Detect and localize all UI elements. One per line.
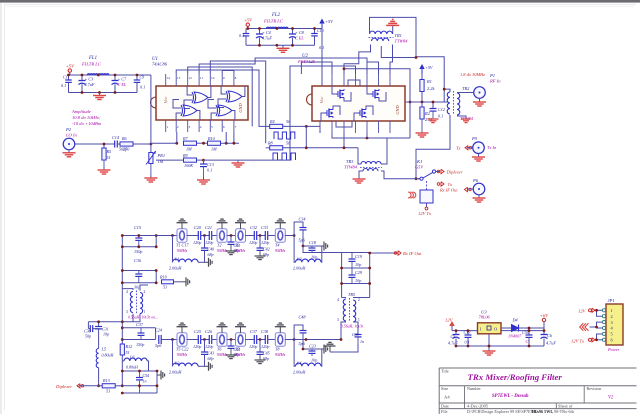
svg-text:C45: C45 [263, 351, 270, 356]
wire to R8 [266, 147, 270, 149]
ground R9 rail red [237, 160, 239, 163]
svg-text:File: File [441, 409, 448, 414]
svg-text:120p: 120p [205, 344, 213, 349]
svg-text:68p: 68p [208, 252, 214, 257]
junction [67, 74, 70, 77]
resistor R7 [184, 141, 197, 145]
svg-text:C42: C42 [263, 247, 270, 252]
svg-text:C18: C18 [309, 240, 317, 245]
ground under row B right [329, 346, 331, 352]
title block frame [439, 367, 636, 369]
svg-text:C39: C39 [352, 332, 359, 337]
svg-text:6: 6 [223, 125, 225, 129]
capacitor C40 shunt [204, 236, 206, 248]
ground above T1 [181, 223, 183, 229]
wire U2 bus 138 [332, 133, 410, 138]
ground FL2 [282, 45, 284, 48]
wire relay no contact [436, 171, 440, 173]
svg-text:C1: C1 [63, 75, 68, 80]
JP1 pin circles [602, 309, 605, 312]
svg-text:C37: C37 [136, 322, 144, 327]
IC U3 78L06 [478, 323, 502, 334]
svg-text:Rx IF Out: Rx IF Out [439, 187, 458, 192]
wire input caps join [93, 328, 99, 330]
svg-text:D:\PCB\Design Explorer 99 SE\S: D:\PCB\Design Explorer 99 SE\SP7EWL\ [467, 409, 539, 414]
svg-text:4.7uF: 4.7uF [85, 82, 95, 87]
svg-text:5p6: 5p6 [299, 341, 306, 346]
tank row B: C23 cap [303, 348, 312, 350]
svg-text:1: 1 [611, 308, 613, 313]
wire Diplexer to R13 [79, 385, 102, 387]
svg-text:FL1: FL1 [88, 56, 97, 61]
net Rx IF Out [370, 252, 398, 254]
window top bar [0, 0, 640, 3]
power +5V input FL2 [246, 23, 249, 26]
svg-text:C26: C26 [205, 329, 213, 334]
svg-text:C38: C38 [261, 329, 269, 334]
svg-text:Tx: Tx [456, 146, 461, 151]
svg-text:4: 4 [200, 125, 202, 129]
svg-text:0.56uH; 10t/3t: 0.56uH; 10t/3t [341, 325, 364, 329]
svg-text:7: 7 [235, 125, 237, 129]
mosfet U2C [328, 109, 330, 118]
svg-text:C29: C29 [355, 270, 363, 275]
svg-text:+5V: +5V [244, 18, 253, 23]
resistor R1 [421, 74, 423, 80]
inductor L4 [296, 363, 322, 366]
svg-text:-10 do +10dBm: -10 do +10dBm [72, 121, 102, 126]
wire U3 out [501, 327, 512, 329]
svg-text:2.00uH: 2.00uH [169, 266, 182, 271]
wire R7 to R10 [197, 142, 208, 144]
svg-text:Vcc: Vcc [163, 97, 168, 104]
svg-text:P2: P2 [65, 127, 72, 132]
svg-text:0.1: 0.1 [140, 85, 145, 90]
wire R6 to node [133, 143, 151, 145]
svg-text:3: 3 [337, 318, 339, 322]
capacitor C33 series [264, 231, 266, 240]
svg-text:T3: T3 [235, 243, 239, 248]
svg-text:T1 C17: T1 C17 [176, 243, 189, 248]
svg-text:4.7uF: 4.7uF [546, 341, 556, 346]
svg-text:8: 8 [235, 76, 237, 80]
svg-text:FILTR LC: FILTR LC [81, 62, 102, 67]
svg-text:36p: 36p [134, 285, 140, 290]
svg-text:0.1: 0.1 [207, 168, 212, 173]
svg-text:C: C [526, 339, 529, 344]
capacitor C43 shunt [204, 340, 206, 352]
ground above T6 [221, 327, 223, 333]
svg-text:R6: R6 [121, 136, 128, 141]
svg-text:+ C3: + C3 [85, 77, 94, 82]
potentiometer PR1 [150, 144, 152, 152]
svg-text:150p: 150p [136, 342, 144, 347]
svg-text:C36: C36 [134, 258, 142, 263]
wire L5 down [98, 368, 100, 386]
xor gate U1B [228, 91, 242, 102]
wire L3 left leg [172, 340, 174, 367]
svg-text:C21: C21 [205, 225, 212, 230]
svg-text:5: 5 [211, 125, 213, 129]
svg-text:13: 13 [177, 76, 181, 80]
svg-text:C12: C12 [438, 107, 445, 112]
wire C40 down [204, 250, 206, 262]
svg-text:1: 1 [166, 125, 168, 129]
wire TR4 bottom pins [122, 314, 133, 322]
wire T5 to C25 [187, 339, 199, 341]
svg-text:0.1: 0.1 [465, 340, 470, 345]
svg-text:4.7uF: 4.7uF [262, 36, 272, 41]
svg-text:0.80uH: 0.80uH [102, 353, 115, 358]
ground above T8 [279, 327, 281, 333]
wire node right [151, 142, 177, 144]
resistor R12 [120, 344, 124, 355]
ground R19 right [182, 281, 186, 283]
wire FL2 top rail [248, 26, 318, 28]
wire T4 right [285, 235, 294, 237]
svg-text:Power: Power [607, 347, 620, 352]
svg-text:0.1: 0.1 [239, 33, 244, 38]
port P6 [473, 183, 485, 195]
wire L6 legs [122, 360, 124, 362]
svg-text:11: 11 [200, 76, 204, 80]
svg-text:10p: 10p [355, 278, 361, 283]
ground C41 [226, 250, 237, 252]
wire FL1 top rail [70, 72, 151, 75]
capacitor C42 shunt [259, 236, 261, 248]
wire output box top [342, 252, 370, 254]
wire U1 pin10 run [210, 61, 265, 143]
wire output box left [341, 253, 343, 298]
svg-text:10.8 do 10kHz;: 10.8 do 10kHz; [72, 115, 101, 120]
ground C13 red [203, 167, 205, 177]
svg-text:+5V: +5V [66, 64, 75, 69]
svg-text:1: 1 [144, 310, 146, 314]
wire C33 to T4 [268, 235, 276, 237]
junction [121, 269, 124, 272]
capacitor C14 series [114, 141, 116, 148]
resistor R9 [184, 158, 197, 162]
ground C12 red [432, 111, 434, 119]
svg-text:1n: 1n [143, 379, 147, 384]
wire U2 internal loop top [348, 80, 360, 86]
svg-text:68p: 68p [208, 356, 214, 361]
wire U2 pin3 down to row [343, 133, 345, 148]
inductor FL2 coil B [277, 27, 288, 28]
svg-text:Tx In: Tx In [487, 145, 497, 150]
transformer TR2 [447, 92, 450, 114]
wire R8 right [283, 147, 358, 149]
wire input top link [88, 321, 122, 323]
svg-text:R12: R12 [125, 344, 133, 349]
svg-text:9MHz: 9MHz [177, 352, 188, 357]
waveform symbol 1 [274, 132, 295, 139]
capacitor C50 [526, 334, 533, 336]
wire U2 internal loop bottom [336, 121, 352, 127]
svg-text:Amplitude: Amplitude [71, 109, 91, 114]
resistor R8 [270, 146, 283, 150]
svg-text:L6: L6 [129, 355, 135, 360]
wire supply bottom rail [456, 345, 544, 347]
mosfet U2B [374, 90, 376, 99]
wire U1 pin11 top run [199, 58, 367, 74]
svg-text:Tx: Tx [448, 182, 453, 187]
resistor R5 [103, 144, 105, 148]
inductor FL1 coil B [98, 74, 109, 75]
svg-text:120p: 120p [249, 240, 257, 245]
svg-text:A4: A4 [444, 395, 450, 400]
junction [121, 234, 124, 237]
svg-text:R7: R7 [182, 136, 189, 141]
ground above T2 [221, 223, 223, 229]
wire supply rail [452, 330, 544, 332]
power +5V arrow U2 [321, 22, 323, 29]
svg-text:12V Tx: 12V Tx [571, 338, 584, 343]
svg-text:Date: Date [441, 404, 449, 409]
ground P5 red [478, 154, 480, 158]
svg-text:+5V: +5V [325, 19, 334, 24]
net GND JP1 chevrons [585, 323, 589, 331]
svg-text:120p: 120p [205, 240, 213, 245]
svg-text:D4: D4 [512, 318, 518, 323]
inductor FL1 coil A [87, 74, 98, 75]
capacitor C45 shunt [259, 340, 261, 352]
svg-text:R8: R8 [267, 141, 274, 146]
wire output box right [369, 253, 371, 298]
relay coil red arcs [408, 192, 411, 198]
crystal T3 [235, 235, 247, 237]
svg-text:G5V: G5V [415, 165, 424, 170]
svg-text:R13: R13 [102, 378, 110, 383]
svg-text:C40: C40 [208, 247, 215, 252]
wire row B to TR5 [294, 339, 341, 341]
svg-text:C34: C34 [299, 217, 306, 222]
wire TR1 secondary right [390, 45, 393, 75]
svg-text:K1: K1 [416, 159, 422, 164]
wire TR5 top pins [342, 297, 346, 299]
svg-text:2: 2 [177, 125, 179, 129]
svg-text:120p: 120p [249, 344, 257, 349]
wire TR1 secondary left [344, 45, 371, 75]
capacitor C13 [203, 160, 205, 164]
capacitor C24 series [158, 335, 160, 344]
svg-text:1n: 1n [360, 339, 364, 344]
net Tx arrow P5 [465, 146, 468, 150]
wire TR4 top right pin [140, 285, 148, 291]
svg-text:C25: C25 [194, 329, 201, 334]
capacitor C8 C EL [292, 29, 294, 34]
svg-text:51: 51 [106, 389, 110, 394]
ground above T3 [240, 223, 242, 229]
junction [455, 345, 458, 348]
transformer TR4 [130, 292, 133, 313]
ground P6 red [478, 195, 480, 198]
svg-text:V2: V2 [608, 396, 614, 401]
capacitor C38 series [264, 335, 266, 344]
capacitor C7 C EL [114, 75, 116, 80]
svg-text:2: 2 [358, 298, 360, 302]
capacitor C54 [139, 371, 141, 377]
inductor L3 [173, 363, 199, 366]
wire T8 right [285, 339, 294, 341]
svg-text:+ C8: + C8 [295, 30, 305, 35]
wire TR1 secondary center [381, 46, 416, 58]
crystal T7 [235, 339, 247, 341]
wire input box [87, 322, 89, 329]
power +6V circle [542, 318, 545, 321]
ground C42 [259, 250, 261, 256]
crystal T6 [216, 339, 228, 341]
wire TR2 bottom right to ground [457, 116, 466, 119]
wire output box mid [342, 267, 370, 269]
IC U1 74AC86 body [156, 86, 248, 120]
svg-text:3: 3 [126, 310, 128, 314]
ground C44 [226, 354, 237, 356]
wire R19 right [174, 281, 183, 283]
wire R13 row to box right [122, 385, 157, 387]
svg-text:R2: R2 [424, 111, 431, 116]
mosfet U2A [339, 90, 341, 99]
capacitor C6 [541, 334, 548, 336]
svg-text:+ C4: + C4 [262, 30, 271, 35]
wire U1 pin12 loop [188, 67, 253, 126]
wire JP1 pins 3 4 [590, 326, 597, 328]
wire R10 right [221, 142, 240, 144]
wire L1 left leg [172, 236, 174, 263]
wire L4 right leg [312, 349, 322, 366]
crystal T8 [274, 339, 286, 341]
svg-text:R5: R5 [106, 149, 112, 154]
svg-text:L5: L5 [101, 347, 106, 352]
svg-text:50p: 50p [85, 334, 91, 339]
svg-text:P5: P5 [471, 136, 478, 141]
ground PR1 red [150, 164, 152, 176]
ground FL1 [99, 93, 101, 96]
svg-text:12: 12 [188, 76, 192, 80]
svg-text:1M: 1M [211, 147, 217, 152]
wire R9 long right [204, 159, 291, 161]
svg-text:JP1: JP1 [608, 298, 615, 303]
wire TR5 pin1 down [353, 322, 358, 334]
ground C54 box right [157, 374, 161, 376]
wire U3 gnd [488, 334, 490, 348]
ground P2 red [68, 150, 70, 153]
svg-text:L1: L1 [174, 257, 179, 262]
wire to R4 [259, 95, 270, 126]
wire R1 to rail [421, 92, 423, 103]
svg-text:TTW84: TTW84 [344, 165, 358, 170]
capacitor C26 series [208, 335, 210, 344]
svg-text:C14: C14 [112, 135, 119, 140]
svg-text:Sheet of: Sheet of [558, 404, 573, 409]
svg-text:150p: 150p [134, 249, 142, 254]
svg-text:C19: C19 [355, 254, 363, 259]
U2 top pin stubs [331, 74, 333, 86]
svg-text:10p: 10p [103, 332, 109, 337]
capacitor C31 [95, 326, 102, 328]
wire row A ladder column [121, 236, 123, 289]
svg-text:9MHz: 9MHz [235, 248, 246, 253]
wire row A main [156, 235, 176, 237]
svg-text:14: 14 [166, 76, 170, 80]
svg-text:120p: 120p [193, 344, 201, 349]
capacitor C5 [453, 334, 460, 336]
junction [81, 91, 84, 94]
wire C20 C21 [201, 235, 210, 237]
svg-text:120p: 120p [261, 240, 269, 245]
wire tank to output box [303, 246, 342, 253]
ground L3 right [205, 365, 209, 367]
capacitor C20 series [197, 231, 199, 240]
ground C23 right [312, 348, 320, 350]
svg-text:Vcc: Vcc [319, 97, 324, 104]
wire node up to U1 [150, 75, 152, 144]
capacitor C2 0.1 [68, 75, 70, 80]
U1 bottom pin stubs [165, 120, 167, 132]
svg-text:9MHz: 9MHz [275, 248, 286, 253]
ground R2 red [421, 119, 423, 133]
wire C37b C38 [257, 339, 266, 341]
ground P1 red [479, 98, 481, 102]
svg-text:5p6: 5p6 [299, 238, 306, 243]
junction [121, 320, 124, 323]
connector JP1 body [606, 304, 623, 345]
capacitor C21 series [208, 231, 210, 240]
wire C26 to T6 [212, 339, 216, 341]
waveform symbol 2 [273, 153, 296, 160]
svg-text:C48: C48 [299, 315, 307, 320]
capacitor C39 [355, 334, 362, 336]
svg-text:TR5: TR5 [348, 292, 355, 297]
svg-text:C54: C54 [143, 373, 150, 378]
svg-text:L4: L4 [296, 361, 301, 366]
svg-text:O: O [494, 327, 497, 332]
capacitor C9 0.1 [136, 75, 138, 80]
wire TR5 pin3 to row B [341, 322, 346, 340]
svg-text:R10: R10 [207, 136, 216, 141]
capacitor C25 series [197, 335, 199, 344]
wire T2 to T3 [227, 235, 237, 237]
svg-text:9MHz: 9MHz [235, 352, 246, 357]
wire FL1 bottom rail [69, 92, 138, 94]
svg-text:SP7EWL - Dzesah: SP7EWL - Dzesah [492, 394, 529, 399]
wire JP1 pins 5 6 [596, 339, 603, 341]
ground above T4 [279, 223, 281, 229]
wire T3 to C32 [245, 235, 254, 237]
svg-text:TR1: TR1 [395, 33, 402, 38]
ground C45 [259, 354, 261, 360]
U2 bottom pin stubs [319, 121, 321, 133]
wire P2 out [75, 143, 115, 145]
junction [246, 27, 249, 30]
wire row A ladder top box [122, 235, 156, 237]
wire U2 pin5 down [366, 133, 368, 138]
wire PR1 wiper row [156, 159, 184, 161]
wire TR1 top loop [370, 17, 445, 102]
wire row B ladder box [122, 327, 155, 329]
resistor R19 [162, 280, 174, 284]
svg-text:Rx IF Out: Rx IF Out [402, 251, 422, 256]
svg-text:Diplexer: Diplexer [446, 169, 463, 174]
svg-text:1.8 do 30MHz: 1.8 do 30MHz [460, 72, 485, 77]
wire R9 right [197, 159, 204, 161]
svg-text:C43: C43 [208, 351, 215, 356]
wire column left lower [121, 289, 123, 386]
capacitor C10 0.1 [314, 29, 316, 34]
xor gate U1C [183, 105, 197, 116]
svg-text:R19: R19 [159, 275, 168, 280]
svg-text:C20: C20 [194, 225, 202, 230]
